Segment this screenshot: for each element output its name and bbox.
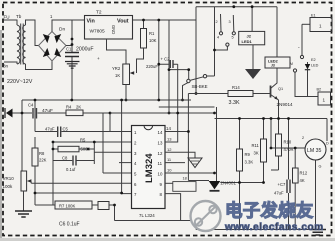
Q1 emitter arrow [274,96,278,100]
R5 leads [53,148,94,150]
svg-text:12: 12 [167,147,172,152]
resistor R4 body [66,110,83,116]
pin12 row [165,152,195,158]
R9 column [239,119,241,230]
wiper short lead [30,181,32,183]
svg-text:4K: 4K [300,178,305,183]
svg-text:www.elecfans.com: www.elecfans.com [224,222,324,233]
LED2 indicator box [265,57,290,68]
R11 column [263,119,265,183]
svg-text:47uF: 47uF [42,108,53,114]
svg-text:LM324: LM324 [144,153,155,183]
svg-text:Q1: Q1 [278,87,283,91]
capacitor C7 plates [287,180,290,194]
resistor R10 body [276,134,282,156]
riser x121.6 [121,100,123,194]
VR10 wiper arrow [27,179,32,183]
wire secondary bottom to bridge bottom [26,61,53,70]
pot VR10 body [21,171,27,191]
svg-text:3.3K: 3.3K [229,100,240,106]
svg-text:R1: R1 [149,31,155,36]
svg-text:2: 2 [302,136,304,140]
transformer T1 secondary winding [23,25,26,64]
ground under coil (filled) [245,69,261,79]
svg-text:3K: 3K [254,151,259,156]
pin9 row to diode [165,182,173,184]
svg-text:LED1: LED1 [242,39,253,44]
svg-text:14: 14 [166,126,171,131]
pin4 stub [119,162,132,164]
junction dots mid right [176,112,179,115]
LM35 D pin riser [326,119,328,142]
svg-text:FU: FU [4,15,10,20]
x35 column mid [34,137,36,193]
junction dot x169 y113 [168,112,171,115]
pot ground stem [23,191,25,211]
row y207 to R7 [35,193,53,205]
wire bridge top to Vin row [52,20,85,32]
Q1 emitter [271,95,279,119]
diode D5 2N4001 (vertical) [209,181,221,189]
row y107 [159,106,215,108]
terminal x295 column to box2 [295,72,318,96]
resistor R11 body [261,139,267,162]
wire SB right to riser [207,75,215,77]
transformer T1 primary winding [17,25,20,64]
left edge grey strip [0,30,2,241]
pin8 column [165,194,181,221]
junction dot x196 R14 row [195,92,198,95]
wire Vout row [133,19,170,21]
svg-text:Tb: Tb [16,14,22,19]
svg-text:+C7: +C7 [278,182,286,187]
resistor R14 body [228,91,253,97]
svg-text:R12: R12 [300,171,308,176]
VR2 arrow head [130,71,135,75]
junction dots Vout row [142,19,145,22]
C1 ground hatch [65,62,80,69]
C1 column upper [71,20,73,53]
svg-text:R10: R10 [284,140,292,145]
svg-text:R9: R9 [245,152,251,157]
bottom right ground [310,230,327,236]
x22 column to pot [21,113,23,171]
svg-text:T2: T2 [96,10,102,16]
potentiometer VR2 body [123,64,130,85]
junction dots right column [238,117,241,120]
svg-text:2K: 2K [76,105,81,110]
main left rail y100 [22,99,191,101]
svg-text:Dn: Dn [59,27,65,33]
pin10 row [165,172,215,174]
junction dots C1 column [71,38,74,41]
right rail y118.5 [215,118,328,120]
ground at pin11 [188,158,202,168]
svg-text:3: 3 [229,20,231,24]
contact lever 2 [220,14,223,32]
svg-text:YR2: YR2 [112,66,121,71]
svg-text:C8: C8 [62,156,68,161]
svg-text:3.3K: 3.3K [245,160,254,165]
LED E2 column [307,62,309,97]
x35 column rail to pin1 row [34,100,36,132]
resistor R7 body [55,201,92,209]
LM35 feed row [271,119,306,149]
contact circles [219,32,222,35]
capacitor C5 plates [58,127,61,138]
svg-text:11: 11 [158,161,163,166]
svg-text:R7 100K: R7 100K [59,204,76,209]
wire mains bottom lead [4,62,17,64]
top relay rail [196,6,277,8]
pin7 stub [122,193,132,195]
svg-text:13: 13 [167,137,172,142]
svg-text:1: 1 [319,24,322,29]
C2 column [158,20,160,100]
svg-text:18: 18 [183,177,187,181]
svg-text:1: 1 [323,98,326,103]
op-amp IC LM324 body [132,126,166,209]
bridge diode top-right [54,34,61,43]
pin2 row [53,141,132,143]
row y193 [35,192,122,194]
coil riser [251,7,253,32]
svg-text:R8: R8 [39,151,45,156]
capacitor C4 plates [33,108,37,119]
wire riser to diode top [188,180,209,182]
relay J1 coil box top right [310,18,332,32]
row y69.6 to SB drop [169,70,189,80]
C2 row [159,63,178,65]
resistor R5 body [58,146,79,152]
common wire [215,46,228,50]
svg-text:13: 13 [158,141,163,146]
svg-text:C4: C4 [28,103,34,108]
Q1 collector [271,68,278,89]
R14 row [188,93,270,95]
pin3 row [94,151,131,153]
svg-text:E1: E1 [311,14,316,18]
riser x103 from mic row to pin5 [102,113,104,173]
capacitor C1 plates [65,53,79,57]
diode row continuation [220,182,263,184]
C8 row [53,160,94,162]
transformer T1 core [21,24,24,65]
riser x169 Vout to y113 row [168,20,170,113]
svg-text:7L L324: 7L L324 [139,213,155,218]
svg-text:220V~12V: 220V~12V [7,79,33,85]
switch SB lever [190,77,203,81]
IC notch [144,126,153,130]
coil to ground [252,45,254,69]
resistor R1 body [141,29,147,49]
wire jog box under pin9 [173,182,196,192]
svg-text:12: 12 [158,151,163,156]
svg-text:D: D [326,142,329,146]
rail left corner down [21,100,23,113]
resistor R9 body [237,149,243,171]
svg-text:C5: C5 [63,127,69,132]
R5/C8 loop right vertical [93,142,95,164]
riser x177.7 upper [177,64,179,113]
svg-text:2: 2 [216,20,218,24]
bridge diode top-left [43,34,50,43]
svg-text:VR10: VR10 [3,176,15,181]
x53 column extension [53,161,55,206]
bridge rectifier D1 outline [39,32,67,62]
svg-text:GND: GND [111,25,116,34]
svg-text:E2: E2 [311,58,316,62]
switch SB circles [187,79,190,82]
svg-text:Vin: Vin [87,19,95,25]
wire secondary top to bridge left [26,20,39,46]
svg-text:10K: 10K [149,38,157,43]
watermark text [224,201,324,234]
junction dots rail/mic row [34,99,37,102]
wire box1 to LED column [302,23,310,25]
svg-text:10: 10 [167,168,172,173]
riser x214.5 [214,7,216,76]
svg-text:J3: J3 [271,64,275,68]
R10 column [271,119,279,171]
LM35 sensor circle [305,139,326,160]
capacitor C8 plates [73,156,76,166]
VR2 bottom lead to rail [125,85,127,101]
svg-text:M: M [290,62,293,66]
R7 right lead [92,205,115,221]
svg-text:C6 0.1uF: C6 0.1uF [59,222,80,228]
riser x177.7 pin13 [165,113,178,142]
svg-text:100k: 100k [3,184,14,189]
relay coil box [239,31,265,44]
pin6 row from pot wiper [31,182,131,184]
row y113 right part [110,112,215,114]
riser x216.5 [216,107,218,183]
bottom edge grey strip [0,238,335,241]
riser x110 [109,113,111,132]
capacitor C2 plates [170,60,173,68]
R5/C8 loop left vertical [52,142,54,161]
svg-text:2000uF: 2000uF [76,47,94,53]
R12 leads [294,148,296,230]
pin1 row with C5 [35,131,132,133]
svg-text:SB-BKE: SB-BKE [192,84,208,89]
capacitor C6 box [98,202,109,210]
svg-text:R4: R4 [66,105,72,110]
mic row [12,112,110,114]
junction dots top rail [232,5,235,8]
svg-text:LED: LED [311,64,319,68]
regulator T2 box [85,16,133,40]
svg-text:22K: 22K [39,158,47,163]
bridge diode bottom-left [43,48,50,57]
pin5 row [103,172,132,174]
wire regulator GND pin path to VR2 top [107,39,127,64]
bottom rail right part [196,229,316,231]
terminal circle upper [300,55,303,58]
pin14 row and riser x188.4 [165,94,188,181]
svg-text:4: 4 [217,36,219,40]
LM35 ground pin [315,160,317,230]
svg-text:R5: R5 [80,138,86,143]
svg-text:B2: B2 [317,88,322,92]
ground under VR10 [15,211,32,217]
svg-text:电子发烧友: 电子发烧友 [225,201,314,221]
wire Vout to relay riser [169,19,196,21]
riser x196 [195,7,197,94]
svg-text:J2: J2 [247,34,252,39]
relay box2 right [318,92,331,105]
svg-text:47uF: 47uF [45,127,55,132]
svg-text:470R: 470R [284,147,294,152]
riser x288.5 column [288,119,290,180]
transistor Q1 base bar [270,86,272,98]
SB left circle down to rail [183,83,189,100]
svg-text:47uF: 47uF [274,191,284,196]
bottom rail left part [115,221,197,230]
mic symbol [6,109,13,118]
svg-text:R14: R14 [232,85,240,90]
wire bridge right vertex to C1 column [66,45,72,47]
junction dots left block [52,141,55,144]
svg-text:1K: 1K [115,73,120,78]
LED E2 symbol [305,64,310,70]
svg-text:2N4001: 2N4001 [221,181,237,186]
wire mains top lead [4,20,17,25]
R8 body on x35 column [32,148,38,166]
svg-text:R11: R11 [252,143,260,148]
svg-text:14: 14 [158,130,163,135]
junction dot x188.4 pin14 [187,130,190,133]
svg-text:10: 10 [158,172,163,177]
svg-text:220uF: 220uF [146,64,158,69]
bridge diode bottom-right [54,48,61,57]
pin11 row [165,162,185,164]
svg-text:Vout: Vout [117,19,129,25]
C7 lower column [288,193,290,230]
svg-text:8n: 8n [3,64,9,69]
svg-text:2N9014: 2N9014 [277,102,294,107]
svg-text:0.1uf: 0.1uf [66,167,76,172]
svg-text:500K: 500K [81,147,91,152]
terminal circle lower [293,69,296,72]
terminal column x302 [301,24,303,55]
contact lever 3 [232,15,235,32]
resistor R12 body [293,168,299,183]
svg-text:LM 35: LM 35 [307,148,322,154]
riser rail through LED2 box [276,7,278,83]
svg-text:W7805: W7805 [90,29,106,35]
watermark circle logo [191,201,221,231]
C1 column lower to rail [71,57,73,100]
svg-text:5: 5 [232,36,234,40]
svg-text:C1: C1 [66,47,72,52]
svg-text:+: + [97,56,100,61]
svg-text:G: G [319,165,322,169]
R1 leads [137,20,144,73]
junction dot SB row [168,68,171,71]
